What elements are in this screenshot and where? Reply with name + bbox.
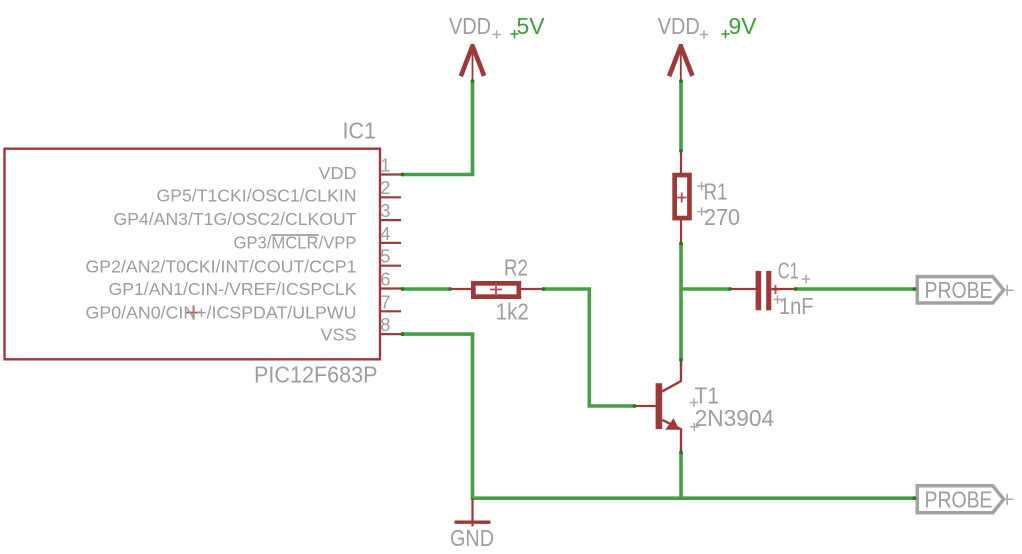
wire R1 to collector node: [679, 243, 683, 360]
svg-text:VDD: VDD: [319, 163, 357, 183]
supply symbol VDD (9V) arrow: [667, 44, 695, 77]
svg-text:GP1/AN1/CIN-/VREF/ICSPCLK: GP1/AN1/CIN-/VREF/ICSPCLK: [109, 279, 357, 299]
R1 name origin cross: [697, 182, 705, 190]
supply symbol VDD (5V) arrow: [459, 44, 487, 77]
wire R2 to T1 base: [543, 289, 634, 406]
connector PROBE (bottom) flag: [917, 486, 1003, 513]
svg-text:GP5/T1CKI/OSC1/CLKIN: GP5/T1CKI/OSC1/CLKIN: [157, 186, 357, 206]
pin 4 stub: [380, 242, 401, 244]
svg-text:PIC12F683P: PIC12F683P: [254, 361, 378, 387]
svg-text:GND: GND: [450, 525, 494, 551]
wire pin1 to VDD 5V: [401, 81, 473, 175]
R1 value origin cross: [697, 207, 705, 215]
capacitor C1 right lead: [771, 288, 796, 290]
svg-text:270: 270: [704, 204, 740, 230]
net name 9V origin cross: [721, 30, 729, 38]
pin 6 stub: [380, 287, 401, 289]
pin 1 stub: [380, 173, 401, 175]
pin 3 stub: [380, 219, 401, 221]
pin 2 stub: [380, 196, 401, 198]
resistor R2 right lead: [520, 288, 543, 290]
svg-text:PROBE: PROBE: [925, 486, 993, 512]
IC1 origin cross: [187, 306, 201, 320]
ground GND symbol: [471, 498, 473, 526]
svg-text:GP0/AN0/CIN+/ICSPDAT/ULPWU: GP0/AN0/CIN+/ICSPDAT/ULPWU: [86, 303, 357, 323]
C1 value origin cross: [773, 295, 781, 303]
connector PROBE (top) flag: [917, 277, 1003, 303]
resistor R2 body: [473, 283, 518, 296]
wire end junction dots: [401, 79, 917, 500]
svg-text:C1: C1: [778, 258, 799, 284]
svg-text:GP4/AN3/T1G/OSC2/CLKOUT: GP4/AN3/T1G/OSC2/CLKOUT: [114, 209, 357, 229]
PROBE (bottom) pin cross: [1002, 494, 1014, 505]
resistor R1 bottom lead: [680, 220, 682, 243]
svg-text:1: 1: [380, 155, 390, 175]
resistor R2 left lead: [449, 288, 472, 290]
svg-text:6: 6: [380, 270, 390, 290]
svg-text:7: 7: [380, 292, 390, 312]
VDD label origin cross (right): [700, 30, 708, 38]
svg-text:1nF: 1nF: [779, 293, 814, 319]
svg-text:1k2: 1k2: [496, 298, 529, 324]
wire C1 to PROBE: [795, 287, 916, 291]
transistor T1 emitter arrow: [665, 418, 679, 430]
svg-text:R2: R2: [504, 254, 528, 280]
transistor T1 collector lead: [662, 360, 681, 391]
resistor R1 top lead: [680, 151, 682, 174]
svg-text:3: 3: [380, 201, 390, 221]
PROBE (top) pin cross: [1002, 285, 1014, 296]
wire VDD 9V to R1: [679, 81, 683, 151]
svg-text:VSS: VSS: [321, 325, 357, 345]
capacitor C1 left lead: [729, 288, 756, 290]
transistor T1 base bar: [656, 383, 663, 429]
svg-text:GP2/AN2/T0CKI/INT/COUT/CCP1: GP2/AN2/T0CKI/INT/COUT/CCP1: [86, 256, 357, 276]
svg-text:PROBE: PROBE: [925, 277, 993, 303]
svg-text:VDD: VDD: [658, 13, 700, 39]
wire pin8 to ground rail and PROBE: [401, 334, 916, 498]
svg-text:8: 8: [380, 315, 390, 335]
pin 7 stub: [380, 310, 401, 312]
svg-text:4: 4: [380, 224, 390, 244]
VDD label origin cross (left): [492, 30, 500, 38]
svg-text:5V: 5V: [517, 13, 546, 39]
svg-text:R1: R1: [704, 178, 728, 204]
pin 5 stub: [380, 265, 401, 267]
wire collector node to C1: [681, 287, 729, 291]
T1 value origin cross: [690, 423, 698, 431]
wire emitter to ground rail: [679, 452, 683, 498]
capacitor C1 origin cross: [772, 285, 780, 294]
svg-text:5: 5: [380, 247, 390, 267]
svg-text:2N3904: 2N3904: [695, 405, 775, 431]
capacitor C1 left plate: [756, 271, 762, 310]
resistor R1 body: [675, 175, 690, 218]
wire pin6 to R2: [401, 287, 449, 291]
resistor R2 origin cross: [490, 284, 502, 296]
capacitor C1 right plate: [766, 271, 771, 310]
pin 8 stub: [380, 333, 401, 335]
IC1 box outline: [5, 149, 381, 360]
transistor T1 emitter lead: [662, 420, 681, 452]
C1 name origin cross: [802, 275, 810, 283]
T1 name origin cross: [690, 398, 698, 406]
svg-text:9V: 9V: [729, 13, 758, 39]
svg-text:VDD: VDD: [449, 13, 491, 39]
pin 4 MCLR overline: [271, 234, 318, 236]
svg-text:IC1: IC1: [343, 118, 377, 144]
resistor R1 origin cross: [677, 193, 687, 203]
svg-text:2: 2: [380, 178, 390, 198]
net name 5V origin cross: [510, 30, 518, 38]
transistor T1 base lead: [634, 405, 656, 407]
